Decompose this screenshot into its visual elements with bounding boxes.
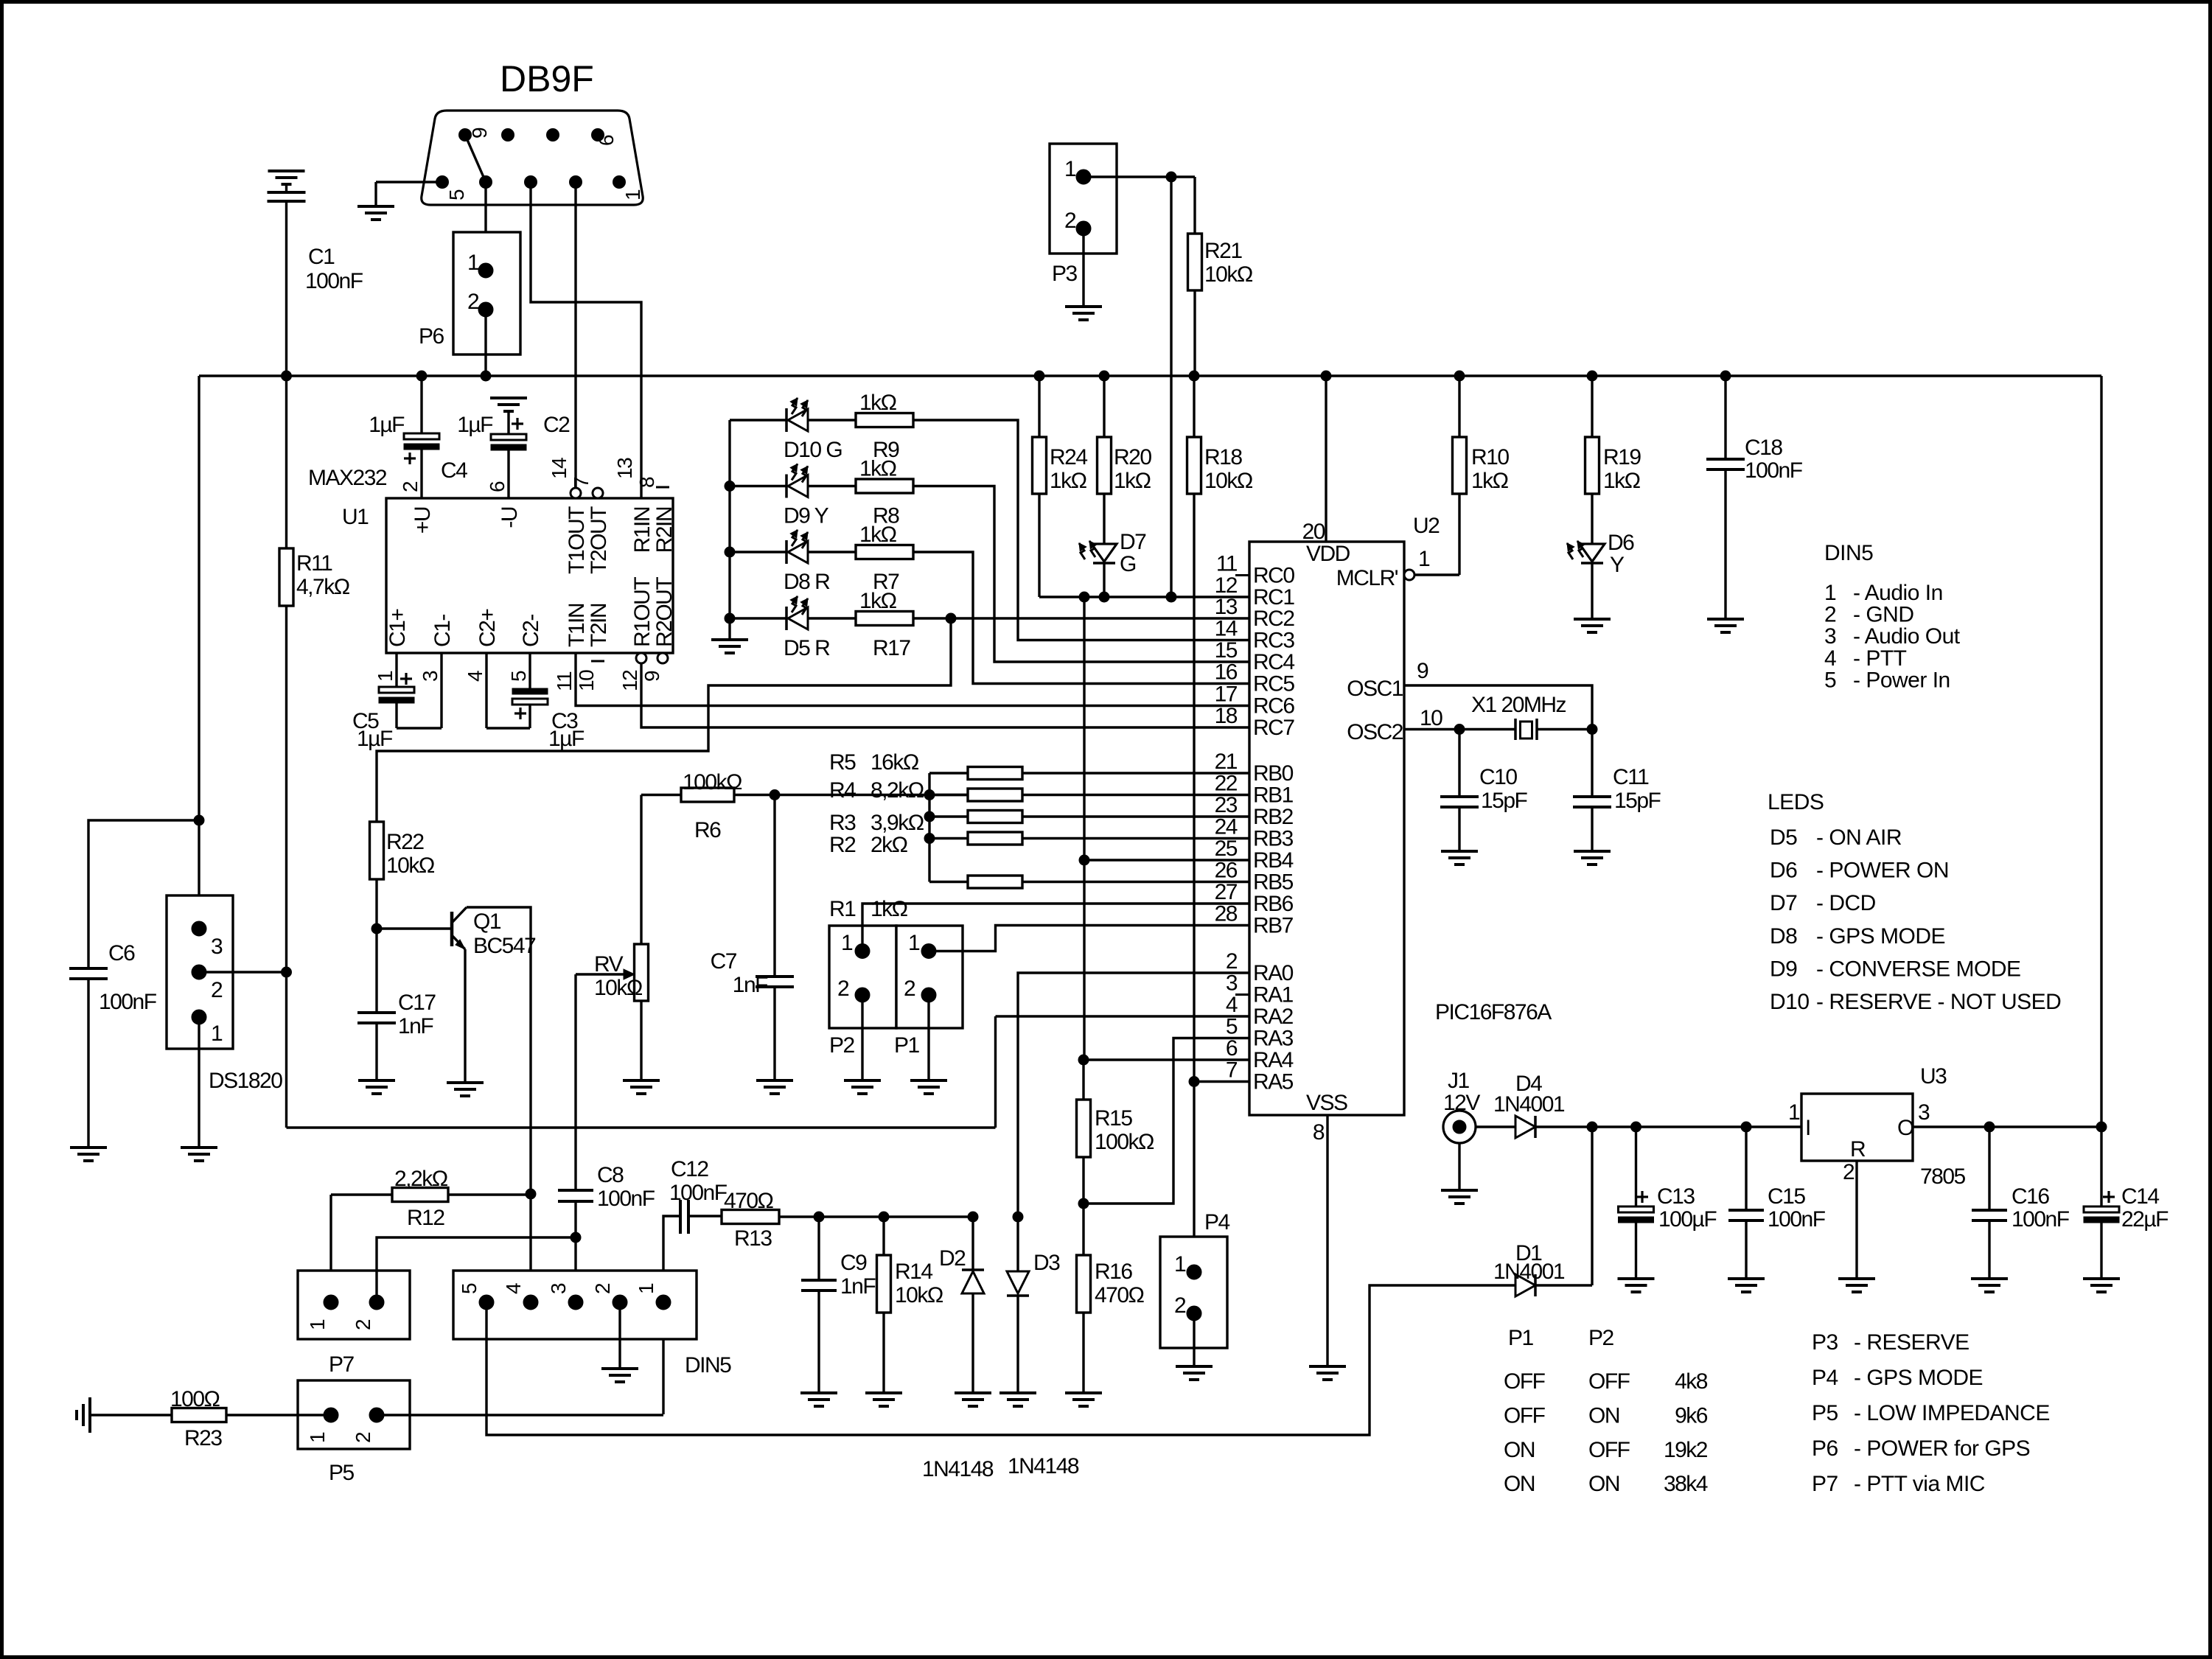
- svg-text:22µF: 22µF: [2121, 1207, 2169, 1232]
- svg-text:2: 2: [467, 290, 479, 314]
- DIN5 pin 1: [656, 1295, 671, 1310]
- svg-text:RB2: RB2: [1253, 805, 1294, 829]
- U1 T1OUT bubble pin14: [571, 488, 581, 498]
- svg-text:14: 14: [548, 458, 571, 479]
- junction RB4 row: [1079, 855, 1089, 865]
- svg-text:1nF: 1nF: [733, 973, 768, 997]
- svg-text:I: I: [1805, 1116, 1810, 1140]
- capacitor C18 100nF: [1724, 376, 1726, 459]
- wire P1 pin2 to ground: [927, 995, 929, 1080]
- resistor R13 470: [722, 1210, 779, 1224]
- connector P3 box: [1050, 144, 1117, 254]
- svg-text:C1-: C1-: [430, 615, 455, 647]
- U2 RC0 nc dash: [1235, 574, 1249, 576]
- svg-text:- RESERVE - NOT USED: - RESERVE - NOT USED: [1816, 990, 2061, 1014]
- svg-text:R1IN: R1IN: [630, 507, 655, 553]
- wire MCLR to R10: [1414, 573, 1459, 576]
- diode D3 1N4148: [1016, 1217, 1019, 1271]
- junction OSC2/C10: [1454, 724, 1465, 735]
- wire P4 pin2 to ground: [1193, 1313, 1195, 1366]
- resistor R12 2.2k: [331, 1193, 392, 1195]
- svg-text:C2: C2: [543, 413, 570, 437]
- U1 T2IN nc dash pin10: [591, 660, 604, 663]
- svg-text:R12: R12: [407, 1206, 444, 1230]
- svg-text:2: 2: [352, 1432, 374, 1443]
- wire D5/R17 to RC2: [913, 617, 1249, 619]
- resistor R15 100k: [1082, 1060, 1084, 1100]
- svg-text:1: 1: [306, 1432, 329, 1443]
- svg-text:R17: R17: [873, 636, 910, 660]
- svg-text:RA4: RA4: [1253, 1048, 1294, 1072]
- DB9F pins top row 9..6: [459, 129, 472, 142]
- svg-text:38k4: 38k4: [1664, 1472, 1708, 1496]
- junction cathode rail row D9: [725, 481, 735, 492]
- diode D2 1N4148: [971, 1217, 974, 1270]
- svg-text:4k8: 4k8: [1675, 1369, 1708, 1394]
- svg-text:- ON AIR: - ON AIR: [1816, 825, 1902, 850]
- svg-text:+U: +U: [411, 507, 435, 534]
- wire J1 to ground: [1458, 1143, 1460, 1190]
- wire +5V bus right drop to 7805 output rail: [2100, 376, 2102, 1127]
- resistor R17 1k: [856, 612, 913, 626]
- wire D3 node to RA0: [1018, 973, 1249, 1217]
- svg-text:DB9F: DB9F: [500, 58, 594, 99]
- DS1820 pin 3: [192, 921, 206, 936]
- svg-text:- GPS MODE: - GPS MODE: [1854, 1366, 1983, 1390]
- svg-text:C10: C10: [1479, 765, 1517, 789]
- svg-text:4: 4: [1226, 993, 1238, 1017]
- svg-text:- GND: - GND: [1853, 603, 1914, 627]
- led D7 DCD: [1103, 494, 1105, 544]
- P3 pin 2: [1076, 221, 1091, 236]
- svg-text:1µF: 1µF: [357, 727, 393, 751]
- svg-text:P4: P4: [1812, 1366, 1838, 1390]
- svg-text:C6: C6: [108, 941, 135, 965]
- ic U2 PIC16F876A box: [1249, 542, 1404, 1115]
- junction rail/C14/bus: [2096, 1122, 2107, 1132]
- svg-text:VSS: VSS: [1306, 1091, 1347, 1115]
- wire DB9F pin4 to P6 pin1: [484, 182, 486, 270]
- svg-text:9k6: 9k6: [1675, 1403, 1708, 1428]
- svg-text:100kΩ: 100kΩ: [683, 770, 742, 794]
- svg-text:R21: R21: [1204, 239, 1242, 263]
- resistor R20 1k: [1103, 376, 1105, 437]
- svg-text:4: 4: [502, 1283, 525, 1294]
- svg-text:J1: J1: [1448, 1069, 1470, 1093]
- P4 pin 2: [1187, 1306, 1201, 1321]
- svg-text:11: 11: [1216, 552, 1238, 576]
- connector P6 box: [453, 232, 520, 354]
- U2 VDD pin 20: [1325, 376, 1327, 542]
- junction C6 tap: [194, 815, 204, 825]
- ground DIN5 pin2: [601, 1367, 638, 1370]
- svg-text:9: 9: [641, 671, 663, 682]
- wire DIN5 pin1 riser: [663, 1216, 679, 1414]
- resistor R4 8,2kΩ: [929, 794, 968, 796]
- wire DS1820 pin1 to ground: [198, 1017, 200, 1148]
- svg-text:27: 27: [1215, 880, 1238, 904]
- capacitor C9 1nF: [817, 1217, 820, 1280]
- resistor R1 1kΩ: [929, 881, 968, 883]
- U1 R1OUT bubble pin12: [636, 653, 646, 663]
- svg-text:3,9kΩ: 3,9kΩ: [871, 811, 924, 835]
- svg-text:RB0: RB0: [1253, 761, 1294, 786]
- ground LED cathode rail: [711, 638, 748, 641]
- svg-text:R10: R10: [1471, 445, 1509, 469]
- resistor R24 1k: [1038, 376, 1040, 437]
- wire power rail: [1535, 1125, 1801, 1128]
- svg-text:D9: D9: [1770, 957, 1797, 981]
- svg-text:C11: C11: [1613, 765, 1649, 789]
- svg-text:P7: P7: [329, 1352, 355, 1377]
- wire P3 pin1 to R21 and RC1: [1084, 175, 1195, 178]
- svg-text:5: 5: [507, 671, 530, 682]
- junction bus/R24: [1034, 371, 1044, 381]
- svg-text:C4: C4: [441, 458, 467, 483]
- svg-text:ON: ON: [1504, 1472, 1535, 1496]
- svg-text:R4: R4: [829, 778, 856, 803]
- svg-text:2: 2: [352, 1319, 374, 1330]
- svg-text:R: R: [1850, 1137, 1866, 1162]
- svg-text:3: 3: [211, 935, 223, 959]
- junction node A / D2: [968, 1212, 978, 1222]
- svg-text:100nF: 100nF: [1745, 458, 1803, 483]
- svg-text:3: 3: [419, 671, 442, 682]
- DIN5 pin 2: [613, 1295, 627, 1310]
- P6 pin 1: [478, 263, 493, 278]
- svg-text:C9: C9: [840, 1251, 867, 1275]
- DS1820 pin 1: [192, 1010, 206, 1024]
- svg-text:VDD: VDD: [1306, 542, 1350, 566]
- svg-text:6: 6: [595, 135, 618, 146]
- wire P6 pin2 to bus: [484, 310, 486, 376]
- svg-text:1: 1: [635, 1283, 657, 1294]
- DIN5 pin 3: [568, 1295, 583, 1310]
- svg-text:RA5: RA5: [1253, 1070, 1294, 1094]
- svg-text:1: 1: [306, 1319, 329, 1330]
- svg-text:100kΩ: 100kΩ: [1095, 1130, 1154, 1154]
- ground C1 top: [282, 183, 292, 186]
- svg-text:100nF: 100nF: [99, 990, 157, 1014]
- svg-text:2: 2: [1824, 603, 1836, 627]
- capacitor C7 1nF: [773, 795, 775, 977]
- connector P1 box: [896, 926, 963, 1028]
- wire D9/R8 to RC4: [913, 486, 1249, 663]
- svg-text:C7: C7: [711, 949, 737, 974]
- resistor R14 10k: [882, 1217, 885, 1255]
- svg-text:17: 17: [1215, 682, 1238, 707]
- svg-text:C2-: C2-: [519, 615, 543, 647]
- svg-text:Q1: Q1: [473, 909, 501, 934]
- svg-text:4: 4: [1824, 646, 1836, 671]
- ground C6: [70, 1146, 107, 1149]
- led D6 POWER ON: [1580, 544, 1605, 562]
- svg-text:RC5: RC5: [1253, 672, 1294, 696]
- junction array RB1: [924, 790, 935, 800]
- svg-text:1: 1: [841, 931, 853, 955]
- junction RA4/R15: [1078, 1055, 1089, 1065]
- svg-text:2: 2: [837, 977, 849, 1001]
- capacitor C2 1uF: [507, 411, 509, 434]
- svg-text:5: 5: [1824, 668, 1836, 692]
- capacitor C3 1uF: [485, 653, 487, 728]
- svg-text:10kΩ: 10kΩ: [386, 853, 435, 878]
- svg-text:1nF: 1nF: [840, 1274, 876, 1299]
- junction R12/PTT line: [526, 1189, 536, 1199]
- svg-text:P3: P3: [1052, 262, 1078, 286]
- wire P7 pin2 to C8 line: [377, 1237, 576, 1302]
- junction RC1/RB4 drop: [1079, 592, 1089, 602]
- DS1820 pin 2: [192, 965, 206, 979]
- svg-text:C8: C8: [597, 1163, 624, 1187]
- svg-text:2: 2: [1174, 1293, 1186, 1318]
- wire DIN5 pin5 to D1: [486, 1285, 1515, 1435]
- svg-text:- LOW IMPEDANCE: - LOW IMPEDANCE: [1854, 1401, 2050, 1425]
- svg-text:1: 1: [1174, 1252, 1186, 1276]
- junction RC2/R22 net: [946, 613, 956, 624]
- svg-text:R15: R15: [1095, 1106, 1132, 1131]
- svg-text:C13: C13: [1657, 1184, 1695, 1209]
- potentiometer RV 10k: [640, 795, 642, 945]
- wire U3 pin2 to ground: [1855, 1161, 1857, 1279]
- svg-text:C2+: C2+: [475, 609, 500, 647]
- ground C13: [1618, 1277, 1655, 1280]
- svg-text:C1+: C1+: [385, 609, 410, 647]
- P3 pin 1: [1076, 170, 1091, 184]
- svg-text:1N4001: 1N4001: [1493, 1092, 1565, 1117]
- svg-text:C1: C1: [308, 245, 335, 269]
- ground C7: [756, 1079, 793, 1082]
- svg-text:R19: R19: [1603, 445, 1641, 469]
- DIN5 pin 5: [479, 1295, 494, 1310]
- svg-text:5: 5: [458, 1283, 481, 1294]
- svg-text:RB6: RB6: [1253, 892, 1294, 916]
- ground R16: [1065, 1391, 1102, 1394]
- ground U3: [1838, 1277, 1875, 1280]
- svg-text:D3: D3: [1033, 1251, 1060, 1275]
- capacitor C16 100nF: [1988, 1127, 1990, 1210]
- svg-text:100nF: 100nF: [597, 1187, 655, 1211]
- svg-text:T2IN: T2IN: [587, 604, 611, 647]
- svg-text:3: 3: [547, 1283, 570, 1294]
- svg-text:1: 1: [1418, 547, 1430, 571]
- resistor R5 16kΩ: [929, 772, 968, 774]
- svg-text:1: 1: [1788, 1100, 1800, 1125]
- resistor R21 10k: [1193, 177, 1196, 234]
- svg-text:D8: D8: [1770, 924, 1797, 949]
- ground C18: [1707, 618, 1744, 621]
- svg-text:1µF: 1µF: [457, 413, 493, 437]
- svg-text:R14: R14: [895, 1260, 932, 1284]
- svg-text:100nF: 100nF: [669, 1181, 728, 1205]
- diode D4 1N4001: [1515, 1116, 1535, 1138]
- svg-text:RC6: RC6: [1253, 694, 1294, 719]
- svg-text:- PTT: - PTT: [1853, 646, 1907, 671]
- svg-text:ON: ON: [1588, 1472, 1619, 1496]
- wire R2R array common: [928, 773, 930, 882]
- svg-text:D2: D2: [939, 1246, 966, 1271]
- resistor R8 1k: [856, 479, 913, 493]
- capacitor C6 100nF: [88, 820, 199, 968]
- svg-text:2: 2: [904, 977, 915, 1001]
- svg-text:24: 24: [1215, 815, 1238, 839]
- svg-text:OFF: OFF: [1588, 1438, 1630, 1462]
- svg-text:1kΩ: 1kΩ: [859, 589, 897, 613]
- svg-text:D5: D5: [1770, 825, 1797, 850]
- junction array RB2: [924, 811, 935, 822]
- ground VSS: [1309, 1365, 1346, 1368]
- svg-text:D10: D10: [1770, 990, 1810, 1014]
- wire P5 pin2 to DIN5 pin1: [377, 1414, 663, 1416]
- svg-text:D6: D6: [1608, 531, 1634, 555]
- wire D10/R9 to RC3: [913, 420, 1249, 640]
- svg-text:U1: U1: [342, 505, 369, 529]
- svg-text:25: 25: [1215, 837, 1238, 861]
- wire RV wiper to C8: [574, 974, 576, 1190]
- wire U3 output rail: [1913, 1125, 2101, 1128]
- svg-text:1: 1: [1824, 581, 1836, 605]
- ground C16: [1971, 1277, 2008, 1280]
- svg-text:7: 7: [1226, 1058, 1238, 1083]
- svg-text:- DCD: - DCD: [1816, 891, 1876, 915]
- resistor R10 1k: [1458, 494, 1460, 575]
- wire D8/R7 to RC5: [913, 552, 1249, 684]
- P2 pin 1: [855, 944, 870, 959]
- svg-text:2,2kΩ: 2,2kΩ: [394, 1167, 448, 1191]
- svg-text:C15: C15: [1768, 1184, 1805, 1209]
- resistor R6 100k: [641, 794, 681, 796]
- wire D6 to ground: [1591, 563, 1593, 619]
- svg-text:R16: R16: [1095, 1260, 1132, 1284]
- svg-text:P5: P5: [329, 1461, 355, 1485]
- svg-text:5: 5: [1226, 1015, 1238, 1039]
- svg-text:1N4148: 1N4148: [922, 1457, 994, 1481]
- wire DS1820 data to RA2: [287, 1126, 996, 1128]
- svg-text:MCLR': MCLR': [1336, 566, 1398, 590]
- svg-text:OSC1: OSC1: [1347, 677, 1403, 701]
- capacitor C10 15pF: [1458, 730, 1460, 797]
- svg-text:RA3: RA3: [1253, 1027, 1294, 1051]
- junction R6/C7: [770, 790, 780, 800]
- junction R11/DS1820 data: [282, 967, 292, 977]
- svg-text:C16: C16: [2012, 1184, 2049, 1209]
- ground C10: [1441, 850, 1478, 853]
- svg-text:- POWER ON: - POWER ON: [1816, 859, 1949, 883]
- svg-text:4,7kΩ: 4,7kΩ: [296, 575, 350, 599]
- svg-text:1: 1: [211, 1021, 223, 1046]
- svg-text:RB5: RB5: [1253, 870, 1294, 895]
- svg-text:U3: U3: [1920, 1064, 1947, 1089]
- svg-text:RV: RV: [594, 952, 624, 977]
- svg-text:1N4001: 1N4001: [1493, 1260, 1565, 1284]
- junction RA5/R18/P4: [1189, 1077, 1199, 1087]
- svg-text:23: 23: [1215, 793, 1238, 817]
- wire +5V bus left drop to DS1820 pin3: [198, 376, 200, 929]
- svg-text:R22: R22: [386, 830, 424, 854]
- svg-text:21: 21: [1215, 750, 1238, 774]
- capacitor C14 22uF: [2100, 1127, 2102, 1206]
- svg-text:- POWER for GPS: - POWER for GPS: [1854, 1436, 2030, 1461]
- svg-text:P5: P5: [1812, 1401, 1838, 1425]
- svg-text:8,2kΩ: 8,2kΩ: [871, 778, 924, 803]
- junction R15/R16/RA3: [1078, 1198, 1089, 1209]
- svg-text:T1OUT: T1OUT: [565, 506, 589, 574]
- resistor R22 10k: [370, 822, 384, 879]
- ground D2: [955, 1391, 991, 1394]
- svg-text:- PTT via MIC: - PTT via MIC: [1854, 1472, 1985, 1496]
- svg-text:1kΩ: 1kΩ: [1050, 469, 1087, 493]
- ground RV: [623, 1079, 660, 1082]
- svg-text:15pF: 15pF: [1481, 789, 1528, 813]
- ground P1: [910, 1079, 947, 1082]
- svg-text:10kΩ: 10kΩ: [594, 976, 643, 1000]
- U2 RA1 nc dash: [1235, 993, 1249, 996]
- svg-text:15pF: 15pF: [1614, 789, 1661, 813]
- wire RA3 jog: [1084, 1038, 1249, 1204]
- svg-text:2: 2: [1843, 1160, 1855, 1184]
- resistor R19 1k: [1591, 376, 1593, 437]
- ground DS1820 pin1: [181, 1146, 217, 1149]
- P5 pin 1: [324, 1408, 338, 1422]
- connector DS1820 box: [167, 895, 233, 1049]
- U1 T2OUT bubble pin7: [593, 488, 603, 498]
- svg-text:P2: P2: [829, 1033, 855, 1058]
- svg-text:RC0: RC0: [1253, 564, 1294, 588]
- svg-text:1kΩ: 1kΩ: [859, 457, 897, 481]
- svg-text:13: 13: [613, 458, 636, 479]
- wire P2 pin2 to ground: [861, 995, 863, 1080]
- svg-text:R2IN: R2IN: [652, 507, 677, 553]
- resistor R7 1k: [856, 545, 913, 559]
- svg-text:8: 8: [635, 477, 658, 488]
- junction bus/P6: [481, 371, 491, 381]
- capacitor C15 100nF: [1745, 1127, 1747, 1210]
- capacitor C11 15pF: [1591, 730, 1593, 797]
- svg-text:C17: C17: [398, 991, 436, 1015]
- crystal X1 20MHz: [1514, 719, 1517, 740]
- resistor R16 470: [1077, 1255, 1091, 1313]
- sideways ground R23: [88, 1397, 91, 1433]
- resistor R11 4.7k: [285, 376, 287, 548]
- ground J1: [1441, 1189, 1478, 1192]
- svg-text:D5 R: D5 R: [784, 636, 830, 660]
- svg-text:1kΩ: 1kΩ: [1471, 469, 1509, 493]
- connector DIN5 box: [453, 1271, 697, 1339]
- svg-text:28: 28: [1215, 902, 1238, 926]
- svg-text:P6: P6: [1812, 1436, 1838, 1461]
- LED D5: [730, 617, 786, 619]
- svg-text:OSC2: OSC2: [1347, 720, 1403, 744]
- svg-text:DIN5: DIN5: [1824, 541, 1873, 565]
- svg-text:RC3: RC3: [1253, 629, 1294, 653]
- wire R1OUT to RC7: [641, 663, 1249, 727]
- svg-text:OFF: OFF: [1588, 1369, 1630, 1394]
- svg-text:D9 Y: D9 Y: [784, 504, 829, 528]
- U1 R2OUT bubble pin9: [657, 653, 668, 663]
- svg-text:3: 3: [1824, 624, 1836, 649]
- wire P2 pin1 to RB6: [862, 904, 1249, 951]
- svg-text:1µF: 1µF: [548, 727, 585, 751]
- svg-text:P7: P7: [1812, 1472, 1838, 1496]
- junction array RB3: [924, 834, 935, 844]
- diode D1 1N4001: [1515, 1274, 1535, 1296]
- svg-text:5: 5: [445, 189, 468, 200]
- svg-text:15: 15: [1215, 638, 1238, 663]
- junction node A / D3 / RA0: [1013, 1212, 1023, 1222]
- svg-text:R5: R5: [829, 750, 856, 775]
- P6 pin 2: [478, 302, 493, 317]
- svg-text:2: 2: [1064, 209, 1076, 233]
